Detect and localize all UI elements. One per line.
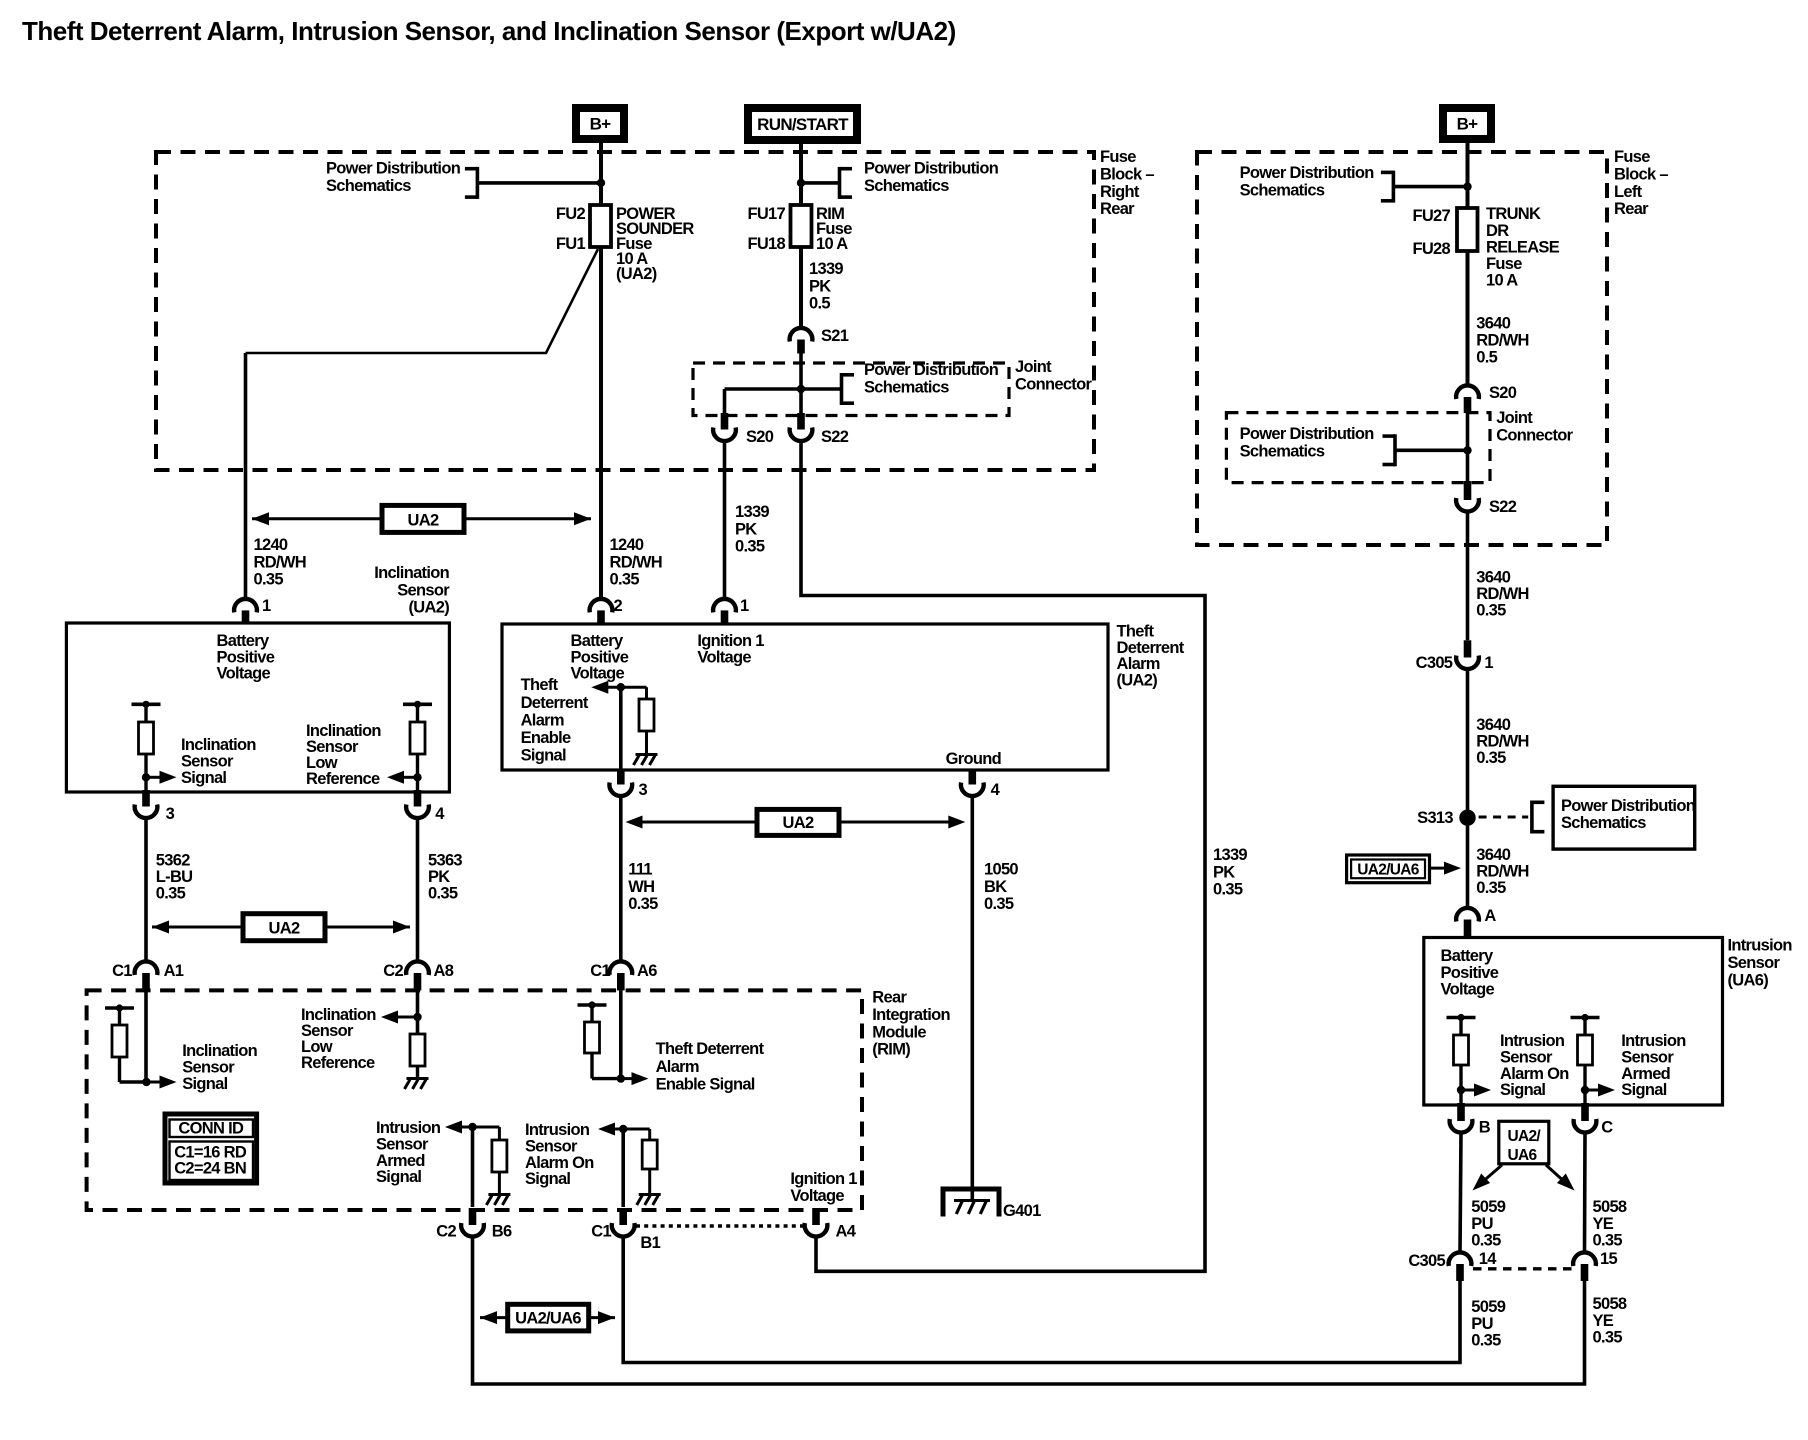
svg-text:Voltage: Voltage (1441, 980, 1495, 998)
svg-text:Intrusion: Intrusion (525, 1121, 590, 1139)
svg-text:RD/WH: RD/WH (610, 553, 662, 571)
wire branch to S20 (723, 389, 727, 413)
theft deterrent alarm component box (502, 624, 1108, 770)
svg-text:Rear: Rear (1614, 200, 1649, 218)
splice S21 (790, 328, 813, 342)
junction S21/S22 (797, 385, 805, 393)
svg-text:2: 2 (614, 597, 623, 615)
svg-text:C2=24 BN: C2=24 BN (174, 1160, 246, 1178)
svg-text:S22: S22 (1489, 498, 1517, 516)
svg-text:0.35: 0.35 (628, 895, 658, 913)
svg-text:1: 1 (740, 597, 749, 615)
svg-text:Left: Left (1614, 183, 1643, 201)
resistor intrusion armed (1571, 1016, 1600, 1020)
wire RIM A8 internal (416, 990, 420, 1034)
arrow intrusion sensor armed signal (1585, 1089, 1598, 1092)
connector C305 pin 14 (1449, 1252, 1472, 1266)
wire bracket to B+ right wire (1393, 185, 1467, 189)
ground G401 (943, 1189, 999, 1217)
harness label UA2/UA6 (two line, with arrows) (1499, 1121, 1549, 1164)
arrow intrusion sensor alarm on signal (1461, 1089, 1474, 1092)
junction joint connector (right) (1463, 446, 1471, 454)
svg-text:Theft: Theft (521, 676, 559, 694)
ground (internal, RIM armed) (488, 1193, 510, 1196)
svg-text:UA2: UA2 (269, 920, 300, 938)
power terminal B+ (left) (576, 108, 624, 139)
svg-text:1339: 1339 (809, 260, 843, 278)
svg-text:Sensor: Sensor (181, 753, 234, 771)
svg-text:B1: B1 (640, 1234, 660, 1252)
pin 2 theft deterrent alarm (590, 599, 613, 613)
svg-text:Fuse: Fuse (1486, 255, 1522, 273)
svg-text:0.35: 0.35 (254, 571, 284, 589)
wire theft pin3 to RIM pin A6 (619, 796, 623, 962)
svg-text:1339: 1339 (1213, 846, 1247, 864)
svg-text:Voltage: Voltage (217, 665, 271, 683)
svg-text:Inclination: Inclination (374, 564, 449, 582)
svg-text:Connector: Connector (1496, 427, 1573, 445)
svg-text:5058: 5058 (1593, 1295, 1627, 1313)
junction enable signal (617, 683, 625, 691)
svg-text:Sensor: Sensor (1728, 954, 1781, 972)
svg-text:0.35: 0.35 (156, 885, 186, 903)
svg-text:S22: S22 (821, 428, 849, 446)
inclination sensor component box (66, 623, 449, 792)
wire RIM A6 internal (619, 990, 623, 1078)
junction intrusion armed (1581, 1086, 1589, 1094)
svg-text:Schematics: Schematics (1240, 181, 1325, 199)
svg-text:3: 3 (166, 805, 175, 823)
svg-text:WH: WH (628, 878, 654, 896)
wire bracket to B+ wire (477, 181, 601, 185)
wire S21 through joint connector (799, 363, 803, 413)
wire fuse FU17 to splice S21 (799, 247, 803, 329)
svg-text:B6: B6 (492, 1223, 512, 1241)
svg-text:Enable: Enable (521, 729, 571, 747)
wire RIM B1 to C305 pin 14 (623, 1237, 1460, 1363)
wire pin C to C305 pin 15 (1583, 1133, 1587, 1253)
junction RIM theft enable (617, 1074, 625, 1082)
svg-text:0.5: 0.5 (809, 295, 830, 313)
resistor theft alarm enable (645, 687, 648, 699)
svg-text:1240: 1240 (610, 536, 644, 554)
svg-text:0.35: 0.35 (428, 885, 458, 903)
pin 4 theft deterrent alarm (ground) (969, 769, 977, 785)
pin A intrusion sensor (1456, 908, 1479, 922)
fuse block - right rear (dashed outline) (156, 152, 1094, 470)
svg-text:10 A: 10 A (1486, 272, 1518, 290)
svg-text:Block –: Block – (1100, 166, 1154, 184)
svg-text:(UA2): (UA2) (616, 265, 657, 283)
wire RIM B6 to C305 pin 15 (473, 1237, 1585, 1385)
connector C305 pin 1 (1464, 640, 1472, 657)
svg-text:Right: Right (1100, 183, 1140, 201)
svg-text:15: 15 (1600, 1250, 1617, 1268)
svg-text:UA2/UA6: UA2/UA6 (1357, 862, 1420, 879)
svg-text:DR: DR (1486, 222, 1509, 240)
svg-text:S20: S20 (1489, 384, 1517, 402)
svg-text:YE: YE (1593, 1312, 1614, 1330)
power terminal B+ (right) (1443, 108, 1491, 139)
svg-text:Ignition 1: Ignition 1 (790, 1170, 857, 1188)
CONN ID table (165, 1114, 257, 1183)
harness range arrow UA2/UA6 (bottom left) (480, 1316, 508, 1319)
wire fuse FU27 to splice S20 (1466, 251, 1470, 386)
svg-text:S313: S313 (1417, 809, 1453, 827)
pin 3 inclination sensor (144, 777, 147, 790)
svg-text:Reference: Reference (306, 770, 380, 788)
wire inclination pin4 to RIM A8 (416, 818, 420, 962)
svg-text:A6: A6 (637, 962, 657, 980)
svg-text:RELEASE: RELEASE (1486, 238, 1560, 256)
ground (internal, RIM low reference) (407, 1077, 429, 1080)
svg-text:Sensor: Sensor (182, 1059, 235, 1077)
wire S20 to theft alarm pin 1 (723, 441, 727, 600)
svg-text:L-BU: L-BU (156, 868, 193, 886)
svg-text:0.35: 0.35 (984, 895, 1014, 913)
junction RIM low reference (413, 1013, 421, 1021)
svg-text:111: 111 (628, 861, 652, 879)
svg-text:1: 1 (262, 597, 271, 615)
fuse FU2/FU1 POWER SOUNDER Fuse 10 A (UA2) (590, 205, 611, 247)
svg-text:3: 3 (639, 781, 648, 799)
svg-text:Power Distribution: Power Distribution (864, 160, 999, 178)
svg-text:0.35: 0.35 (1593, 1328, 1623, 1346)
svg-text:0.35: 0.35 (610, 571, 640, 589)
power terminal RUN/START (748, 108, 857, 140)
svg-text:14: 14 (1479, 1250, 1497, 1268)
svg-text:Sensor: Sensor (397, 581, 450, 599)
svg-text:PK: PK (735, 520, 757, 538)
svg-text:Power Distribution: Power Distribution (1240, 425, 1375, 443)
junction on B+ right wire (1463, 182, 1471, 190)
svg-text:S21: S21 (821, 327, 849, 345)
svg-text:10 A: 10 A (816, 235, 848, 253)
svg-text:Inclination: Inclination (182, 1042, 257, 1060)
svg-text:Battery: Battery (1441, 947, 1494, 965)
svg-text:0.35: 0.35 (735, 538, 765, 556)
svg-text:Power Distribution: Power Distribution (326, 160, 461, 178)
svg-text:C1: C1 (590, 962, 610, 980)
svg-text:3640: 3640 (1476, 315, 1510, 333)
wire intrusion alarm on to pin B (1459, 1090, 1462, 1105)
svg-text:C305: C305 (1408, 1252, 1445, 1270)
svg-text:Schematics: Schematics (326, 177, 411, 195)
joint connector (dashed box, left) (693, 363, 1009, 416)
svg-text:B+: B+ (1457, 115, 1479, 134)
wire RIM alarm on to pin B1 (621, 1129, 625, 1207)
svg-text:0.35: 0.35 (1593, 1231, 1623, 1249)
ground (internal, theft alarm) (636, 753, 658, 756)
svg-text:0.35: 0.35 (1471, 1331, 1501, 1349)
pin C intrusion sensor (1581, 1103, 1589, 1121)
svg-text:UA2/: UA2/ (1508, 1128, 1542, 1145)
wire enable signal to pin 3 (619, 687, 623, 770)
svg-text:Power Distribution: Power Distribution (1561, 797, 1696, 815)
svg-text:Signal: Signal (521, 747, 566, 765)
svg-text:RD/WH: RD/WH (1476, 863, 1528, 881)
svg-text:Schematics: Schematics (1561, 814, 1646, 832)
wire B+ right to fuse FU27/FU28 (1466, 143, 1470, 208)
svg-text:FU27: FU27 (1412, 207, 1450, 225)
svg-text:G401: G401 (1003, 1202, 1041, 1220)
junction inclination low reference (413, 773, 421, 781)
svg-text:0.35: 0.35 (1476, 602, 1506, 620)
wire inclination pin3 to RIM A1 (144, 818, 148, 962)
svg-text:0.35: 0.35 (1476, 879, 1506, 897)
svg-text:A8: A8 (434, 962, 454, 980)
arrow theft deterrent alarm enable signal (591, 681, 608, 694)
power distribution schematics reference box (S313) (1553, 786, 1695, 849)
svg-text:Alarm On: Alarm On (1500, 1065, 1569, 1083)
wire RIM A1 internal (144, 990, 148, 1082)
pin C1 A1 (RIM) (135, 961, 158, 975)
svg-text:C2: C2 (383, 962, 403, 980)
svg-text:TRUNK: TRUNK (1486, 205, 1541, 223)
svg-text:Schematics: Schematics (864, 378, 949, 396)
svg-text:A1: A1 (164, 962, 184, 980)
svg-text:5059: 5059 (1471, 1298, 1505, 1316)
resistor RIM theft enable (578, 1003, 607, 1007)
svg-text:UA6: UA6 (1508, 1147, 1538, 1164)
svg-text:Schematics: Schematics (1240, 442, 1325, 460)
splice S20 (right) (1456, 385, 1479, 399)
svg-text:Sensor: Sensor (376, 1136, 429, 1154)
svg-text:C1: C1 (591, 1223, 611, 1241)
junction inclination signal (142, 773, 150, 781)
svg-text:Sensor: Sensor (1621, 1049, 1674, 1067)
wire joint connector internal (right) (1395, 448, 1468, 452)
arrow inclination sensor signal (146, 776, 160, 779)
wire joint connector internal (725, 387, 842, 391)
svg-text:C: C (1601, 1119, 1613, 1137)
svg-text:PK: PK (428, 868, 450, 886)
svg-text:Signal: Signal (376, 1168, 421, 1186)
pin B intrusion sensor (1457, 1103, 1465, 1121)
svg-text:Sensor: Sensor (525, 1138, 578, 1156)
splice S22 (left) (797, 413, 805, 430)
svg-text:1339: 1339 (735, 503, 769, 521)
svg-text:0.35: 0.35 (1471, 1231, 1501, 1249)
arrow RIM inclination sensor signal (146, 1081, 160, 1084)
wire theft pin4 to ground G401 (970, 796, 974, 1201)
splice S313 (1459, 810, 1475, 826)
resistor intrusion alarm on (1447, 1016, 1476, 1020)
joint connector (dashed box, right) (1226, 413, 1490, 483)
pin 3 theft deterrent alarm (617, 769, 625, 785)
svg-text:Rear: Rear (1100, 200, 1135, 218)
svg-text:Armed: Armed (1621, 1065, 1670, 1083)
wire S22 to C305 pin 1 (1466, 511, 1470, 640)
fuse FU27/FU28 TRUNK DR RELEASE Fuse 10 A (1457, 208, 1478, 251)
harness range arrow UA2 (top) (252, 517, 382, 520)
svg-text:0.35: 0.35 (1213, 881, 1243, 899)
svg-text:A: A (1484, 907, 1496, 925)
arrow inclination sensor low reference (403, 776, 418, 779)
svg-text:Alarm: Alarm (656, 1058, 699, 1076)
wire branch fuse to inclination sensor pin 1 (246, 249, 599, 353)
svg-text:FU2: FU2 (556, 205, 586, 223)
svg-text:Signal: Signal (525, 1170, 570, 1188)
resistor RIM low reference (410, 1034, 425, 1066)
svg-text:Ground: Ground (946, 750, 1001, 768)
dashed reference from S313 (1479, 816, 1529, 819)
svg-text:RD/WH: RD/WH (1476, 332, 1528, 350)
dashed link C305 14 to 15 (1473, 1267, 1573, 1270)
wire intrusion armed to pin C (1583, 1090, 1586, 1105)
svg-text:UA2/UA6: UA2/UA6 (515, 1310, 581, 1328)
svg-text:Voltage: Voltage (790, 1187, 844, 1205)
svg-text:Voltage: Voltage (697, 648, 751, 666)
arrow RIM theft deterrent alarm enable signal (621, 1077, 632, 1080)
svg-text:PU: PU (1471, 1315, 1493, 1333)
pin 1 inclination sensor (234, 599, 257, 613)
resistor inclination sensor low reference (403, 702, 432, 706)
svg-text:Deterrent: Deterrent (521, 694, 589, 712)
intrusion sensor component box (1424, 938, 1723, 1106)
pin 1 theft deterrent alarm (713, 599, 736, 613)
wire S22 to RIM pin A4 (1339 PK) (801, 441, 1205, 1272)
ground (internal, RIM alarm on) (639, 1193, 661, 1196)
harness label UA2/UA6 with arrow (right column) (1347, 855, 1430, 883)
svg-text:RD/WH: RD/WH (254, 553, 306, 571)
svg-text:Signal: Signal (181, 769, 226, 787)
wire fuse to theft alarm pin 2 (599, 247, 603, 599)
junction on B+ wire (597, 179, 605, 187)
svg-text:5059: 5059 (1471, 1198, 1505, 1216)
splice S22 (right) (1464, 481, 1472, 500)
svg-text:B: B (1479, 1119, 1491, 1137)
svg-text:Signal: Signal (1500, 1081, 1545, 1099)
rear integration module (dashed box) (87, 990, 862, 1210)
svg-text:FU28: FU28 (1412, 240, 1450, 258)
resistor RIM inclination sensor signal (105, 1006, 134, 1010)
svg-text:BK: BK (984, 878, 1007, 896)
svg-text:FU1: FU1 (556, 235, 586, 253)
junction intrusion alarm on (1457, 1086, 1465, 1094)
svg-text:Integration: Integration (872, 1006, 950, 1024)
svg-text:PK: PK (1213, 863, 1235, 881)
svg-text:Intrusion: Intrusion (376, 1119, 441, 1137)
wire bracket to RUN/START wire (801, 181, 840, 185)
svg-text:Theft Deterrent Alarm, Intrusi: Theft Deterrent Alarm, Intrusion Sensor,… (22, 16, 956, 46)
svg-text:PK: PK (809, 277, 831, 295)
svg-text:CONN ID: CONN ID (178, 1120, 244, 1138)
svg-text:Rear: Rear (872, 989, 907, 1007)
arrow RIM inclination sensor low reference (397, 1016, 418, 1019)
pin A4 (RIM) (812, 1208, 820, 1225)
svg-text:3640: 3640 (1476, 846, 1510, 864)
fuse block - left rear (dashed outline) (1197, 152, 1607, 545)
connector C305 pin 15 (1573, 1252, 1596, 1266)
svg-text:Enable Signal: Enable Signal (656, 1076, 755, 1094)
svg-text:1240: 1240 (254, 536, 288, 554)
svg-text:PU: PU (1471, 1215, 1493, 1233)
svg-text:C305: C305 (1416, 654, 1453, 672)
svg-text:B+: B+ (590, 115, 612, 134)
svg-text:Signal: Signal (182, 1075, 227, 1093)
pin C2 B6 (RIM) (469, 1208, 477, 1225)
svg-text:RD/WH: RD/WH (1476, 585, 1528, 603)
svg-text:0.5: 0.5 (1476, 349, 1497, 367)
svg-text:UA2: UA2 (408, 512, 439, 530)
wire RUN/START to fuse FU17/FU18 (799, 144, 803, 205)
svg-text:A4: A4 (836, 1223, 857, 1241)
svg-text:(RIM): (RIM) (872, 1041, 910, 1059)
pin C1 A6 (RIM) (609, 961, 632, 975)
svg-text:Theft Deterrent: Theft Deterrent (656, 1040, 765, 1058)
svg-text:Joint: Joint (1496, 409, 1533, 427)
svg-text:Inclination: Inclination (181, 736, 256, 754)
svg-text:Alarm: Alarm (521, 711, 564, 729)
harness range arrow UA2 (lower) (152, 926, 243, 929)
svg-text:Joint: Joint (1015, 358, 1052, 376)
svg-text:Module: Module (872, 1023, 926, 1041)
svg-text:Fuse: Fuse (1614, 148, 1650, 166)
resistor inclination sensor signal (132, 702, 161, 706)
splice S20 (left) (721, 413, 729, 430)
svg-text:Fuse: Fuse (1100, 148, 1136, 166)
svg-text:FU18: FU18 (747, 235, 785, 253)
junction RIM inclination signal (142, 1078, 150, 1086)
svg-text:Reference: Reference (301, 1054, 375, 1072)
svg-text:C2: C2 (436, 1223, 456, 1241)
fuse FU17/FU18 RIM Fuse 10 A (791, 205, 812, 247)
svg-text:5363: 5363 (428, 852, 462, 870)
svg-text:1050: 1050 (984, 861, 1018, 879)
svg-text:5058: 5058 (1593, 1198, 1627, 1216)
pin C2 A8 (RIM) (406, 961, 429, 975)
svg-text:Positive: Positive (1441, 964, 1499, 982)
svg-text:3640: 3640 (1476, 716, 1510, 734)
svg-text:Intrusion: Intrusion (1728, 937, 1793, 955)
svg-text:Intrusion: Intrusion (1621, 1032, 1686, 1050)
arrow RIM intrusion sensor alarm on signal (598, 1123, 615, 1136)
svg-text:(UA2): (UA2) (1117, 671, 1158, 689)
svg-text:(UA6): (UA6) (1728, 971, 1769, 989)
svg-text:Armed: Armed (376, 1152, 425, 1170)
svg-text:(UA2): (UA2) (409, 599, 450, 617)
svg-text:Alarm On: Alarm On (525, 1154, 594, 1172)
svg-text:5362: 5362 (156, 852, 190, 870)
svg-text:Connector: Connector (1015, 375, 1092, 393)
dotted link B1 to A4 (636, 1224, 803, 1227)
svg-text:1: 1 (1484, 654, 1493, 672)
svg-text:Voltage: Voltage (571, 665, 625, 683)
svg-text:Intrusion: Intrusion (1500, 1032, 1565, 1050)
svg-text:Power Distribution: Power Distribution (1240, 164, 1375, 182)
svg-text:FU17: FU17 (747, 205, 785, 223)
svg-text:UA2: UA2 (783, 814, 814, 832)
wire pin B to C305 pin 14 (1460, 1133, 1461, 1253)
junction on RUN/START wire (797, 179, 805, 187)
wire C305 to splice S313 (1466, 669, 1470, 908)
svg-text:RUN/START: RUN/START (757, 115, 849, 134)
svg-text:S20: S20 (746, 428, 774, 446)
svg-text:Signal: Signal (1621, 1081, 1666, 1099)
svg-text:Sensor: Sensor (1500, 1049, 1553, 1067)
arrow RIM intrusion sensor armed signal (445, 1121, 462, 1134)
harness range arrow UA2 (middle) (641, 821, 757, 824)
svg-text:C1: C1 (112, 962, 132, 980)
wire B+ to fuse FU2/FU1 (599, 143, 603, 205)
pin C1 B1 (RIM) (619, 1208, 627, 1225)
svg-text:0.35: 0.35 (1476, 749, 1506, 767)
svg-text:3640: 3640 (1476, 568, 1510, 586)
wire RIM armed to pin B6 (471, 1127, 475, 1207)
svg-text:YE: YE (1593, 1215, 1614, 1233)
svg-text:Block –: Block – (1614, 166, 1668, 184)
